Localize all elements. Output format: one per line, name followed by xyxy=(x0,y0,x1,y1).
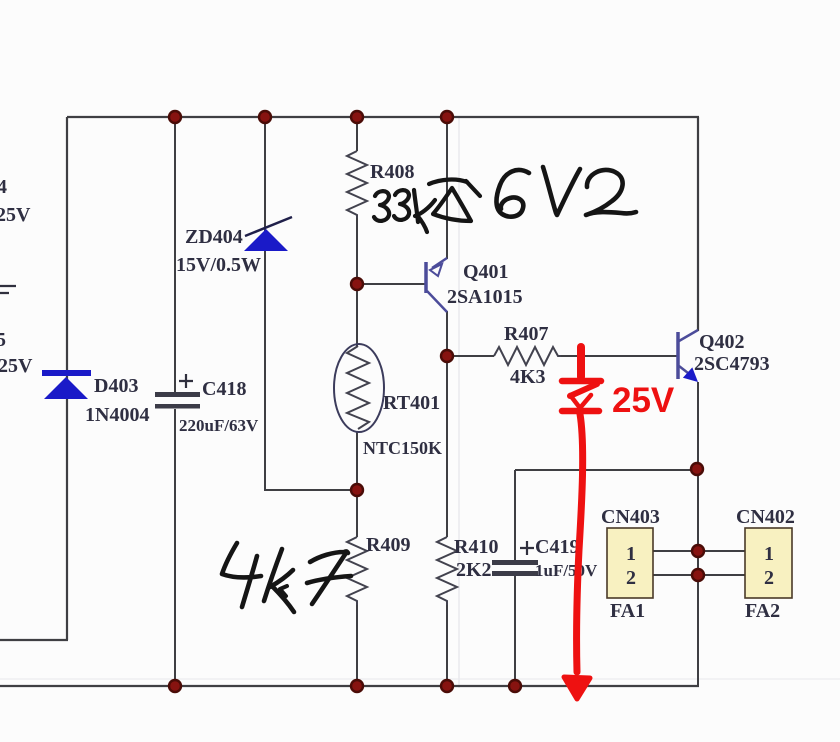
svg-text:2: 2 xyxy=(764,567,774,589)
svg-text:CN403: CN403 xyxy=(601,506,660,528)
node pin1 xyxy=(692,545,704,557)
node bottom bus / C418 xyxy=(169,680,181,692)
node bottom bus / C419 xyxy=(509,680,521,692)
node bottom bus / R410 xyxy=(441,680,453,692)
wire C419 column lower xyxy=(514,576,516,686)
scan artifact faint vertical line xyxy=(458,117,460,688)
capacitor C418 xyxy=(155,374,259,435)
svg-text:025V: 025V xyxy=(0,355,33,377)
handwritten 6V2 xyxy=(496,167,636,217)
wire RT401 to junction xyxy=(356,431,358,537)
svg-text:220uF/63V: 220uF/63V xyxy=(179,416,259,435)
wire CN403 pin1 to CN402 pin1 xyxy=(653,550,745,552)
svg-text:R409: R409 xyxy=(366,534,410,556)
node top bus / Q401 emitter xyxy=(441,111,453,123)
node RT401 / R409 / ZD404 xyxy=(351,484,363,496)
svg-text:2: 2 xyxy=(626,567,636,589)
wire C418 column upper xyxy=(174,117,176,392)
resistor R410 xyxy=(437,536,498,605)
wire C418 column lower xyxy=(174,409,176,686)
svg-text:15V/0.5W: 15V/0.5W xyxy=(176,254,261,276)
svg-text:1N4004: 1N4004 xyxy=(85,404,149,426)
svg-text:FA1: FA1 xyxy=(610,600,645,622)
red annotation: probe wire top stub xyxy=(577,347,585,377)
wire row from C419 top to Q402 emitter column xyxy=(515,469,697,471)
thermistor RT401 xyxy=(334,344,442,458)
zener diode ZD404 xyxy=(176,217,292,276)
svg-text:25V: 25V xyxy=(612,381,675,420)
node Q401 collector / R407 xyxy=(441,350,453,362)
wire R408 to RT401 xyxy=(356,217,358,346)
wire CN403 pin2 to CN402 pin2 xyxy=(653,574,745,576)
red annotation: hand-drawn zener 25V xyxy=(562,381,601,411)
wire ZD404 column with elbow to RT401 column xyxy=(265,117,357,490)
wire R410 to bottom bus xyxy=(446,605,448,686)
capacitor C419 xyxy=(492,536,598,580)
svg-text:C418: C418 xyxy=(202,378,246,400)
transistor Q401 xyxy=(426,258,523,312)
node top bus / ZD404 xyxy=(259,111,271,123)
wire bottom bus xyxy=(0,685,699,687)
svg-text:2SC4793: 2SC4793 xyxy=(694,353,770,375)
svg-text:C419: C419 xyxy=(535,536,579,558)
svg-text:R408: R408 xyxy=(370,161,414,183)
wire left column (top bus through D403 down) xyxy=(66,117,68,640)
wire R407 left lead xyxy=(447,355,494,357)
wire Q401 emitter column xyxy=(446,117,448,259)
wire C419 column upper xyxy=(514,470,516,560)
svg-text:RT401: RT401 xyxy=(383,392,440,414)
svg-text:ZD404: ZD404 xyxy=(185,226,243,248)
svg-text:4: 4 xyxy=(0,176,7,198)
svg-text:4K3: 4K3 xyxy=(510,366,546,388)
wire bottom-left stub xyxy=(0,639,68,641)
red annotation: arrowhead xyxy=(564,677,590,699)
handwritten zener symbol xyxy=(429,180,480,221)
wire top bus xyxy=(67,116,699,118)
svg-text:2K2: 2K2 xyxy=(456,559,492,581)
wire Q401 base xyxy=(357,283,425,285)
svg-text:2SA1015: 2SA1015 xyxy=(447,286,523,308)
connector CN403 xyxy=(601,506,660,622)
node top bus / C418 xyxy=(169,111,181,123)
svg-text:D403: D403 xyxy=(94,375,138,397)
wire R409 to bottom bus xyxy=(356,605,358,686)
connector CN402 xyxy=(736,506,795,622)
svg-text:Q402: Q402 xyxy=(699,331,745,353)
node Q402 emitter / C419 row xyxy=(691,463,703,475)
wire Q401 collector column down to R410 xyxy=(446,311,448,537)
svg-text:1: 1 xyxy=(626,543,636,565)
svg-text:5: 5 xyxy=(0,329,6,351)
svg-text:R410: R410 xyxy=(454,536,498,558)
svg-text:FA2: FA2 xyxy=(745,600,780,622)
wire R408 column top xyxy=(356,117,358,151)
handwritten 4k7 xyxy=(222,543,351,612)
wire R407 right lead to Q402 base xyxy=(560,355,677,357)
scan artifact faint horizontal line xyxy=(0,678,840,680)
svg-text:1: 1 xyxy=(764,543,774,565)
node Q401 base xyxy=(351,278,363,290)
svg-text:R407: R407 xyxy=(504,323,548,345)
wire right column (top bus to Q402 collector) xyxy=(697,117,699,331)
svg-text:Q401: Q401 xyxy=(463,261,509,283)
svg-text:25V: 25V xyxy=(0,204,31,226)
svg-text:1uF/50V: 1uF/50V xyxy=(535,561,598,580)
ground symbol (cropped) xyxy=(0,286,16,293)
node top bus / R408 xyxy=(351,111,363,123)
transistor Q402 xyxy=(678,330,770,382)
red annotation: wire down to ground xyxy=(577,414,583,672)
svg-text:CN402: CN402 xyxy=(736,506,795,528)
diode D403 xyxy=(42,370,149,426)
svg-text:NTC150K: NTC150K xyxy=(363,438,442,458)
resistor R407 xyxy=(494,323,561,388)
resistor R408 xyxy=(347,151,414,218)
handwritten 33k xyxy=(374,190,435,232)
node bottom bus / R409 xyxy=(351,680,363,692)
resistor R409 xyxy=(347,534,410,605)
wire Q402 emitter column down xyxy=(697,382,699,686)
node pin2 xyxy=(692,569,704,581)
